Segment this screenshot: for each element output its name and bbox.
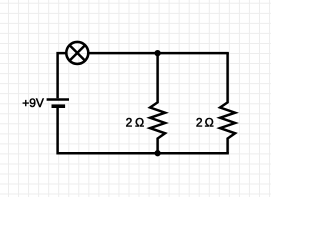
resistor R1 <box>150 53 165 153</box>
svg-text:2: 2 <box>196 116 203 130</box>
node: bottom junction dot <box>154 150 160 156</box>
wire: bottom junction to bottom-right corner <box>158 152 229 155</box>
label R2 value 2 Ω <box>196 116 214 130</box>
wire: lamp left lead and left branch down to battery + <box>58 53 68 98</box>
wire: battery - down and bottom run to bottom junction <box>58 108 158 153</box>
svg-text:Ω: Ω <box>205 116 214 130</box>
lamp L1 <box>66 42 88 64</box>
label R1 value 2 Ω <box>126 116 145 130</box>
resistor R2 <box>220 53 235 153</box>
battery V1 plus plate <box>47 98 69 101</box>
label +9V <box>22 96 44 110</box>
wire: lamp right lead to top junction <box>88 52 157 55</box>
wire: top junction to top-right corner <box>158 52 229 55</box>
svg-text:Ω: Ω <box>135 116 144 130</box>
svg-text:2: 2 <box>126 116 133 130</box>
battery V1 minus plate <box>52 104 66 108</box>
node: top junction dot <box>154 50 160 56</box>
svg-text:+9V: +9V <box>22 96 44 110</box>
